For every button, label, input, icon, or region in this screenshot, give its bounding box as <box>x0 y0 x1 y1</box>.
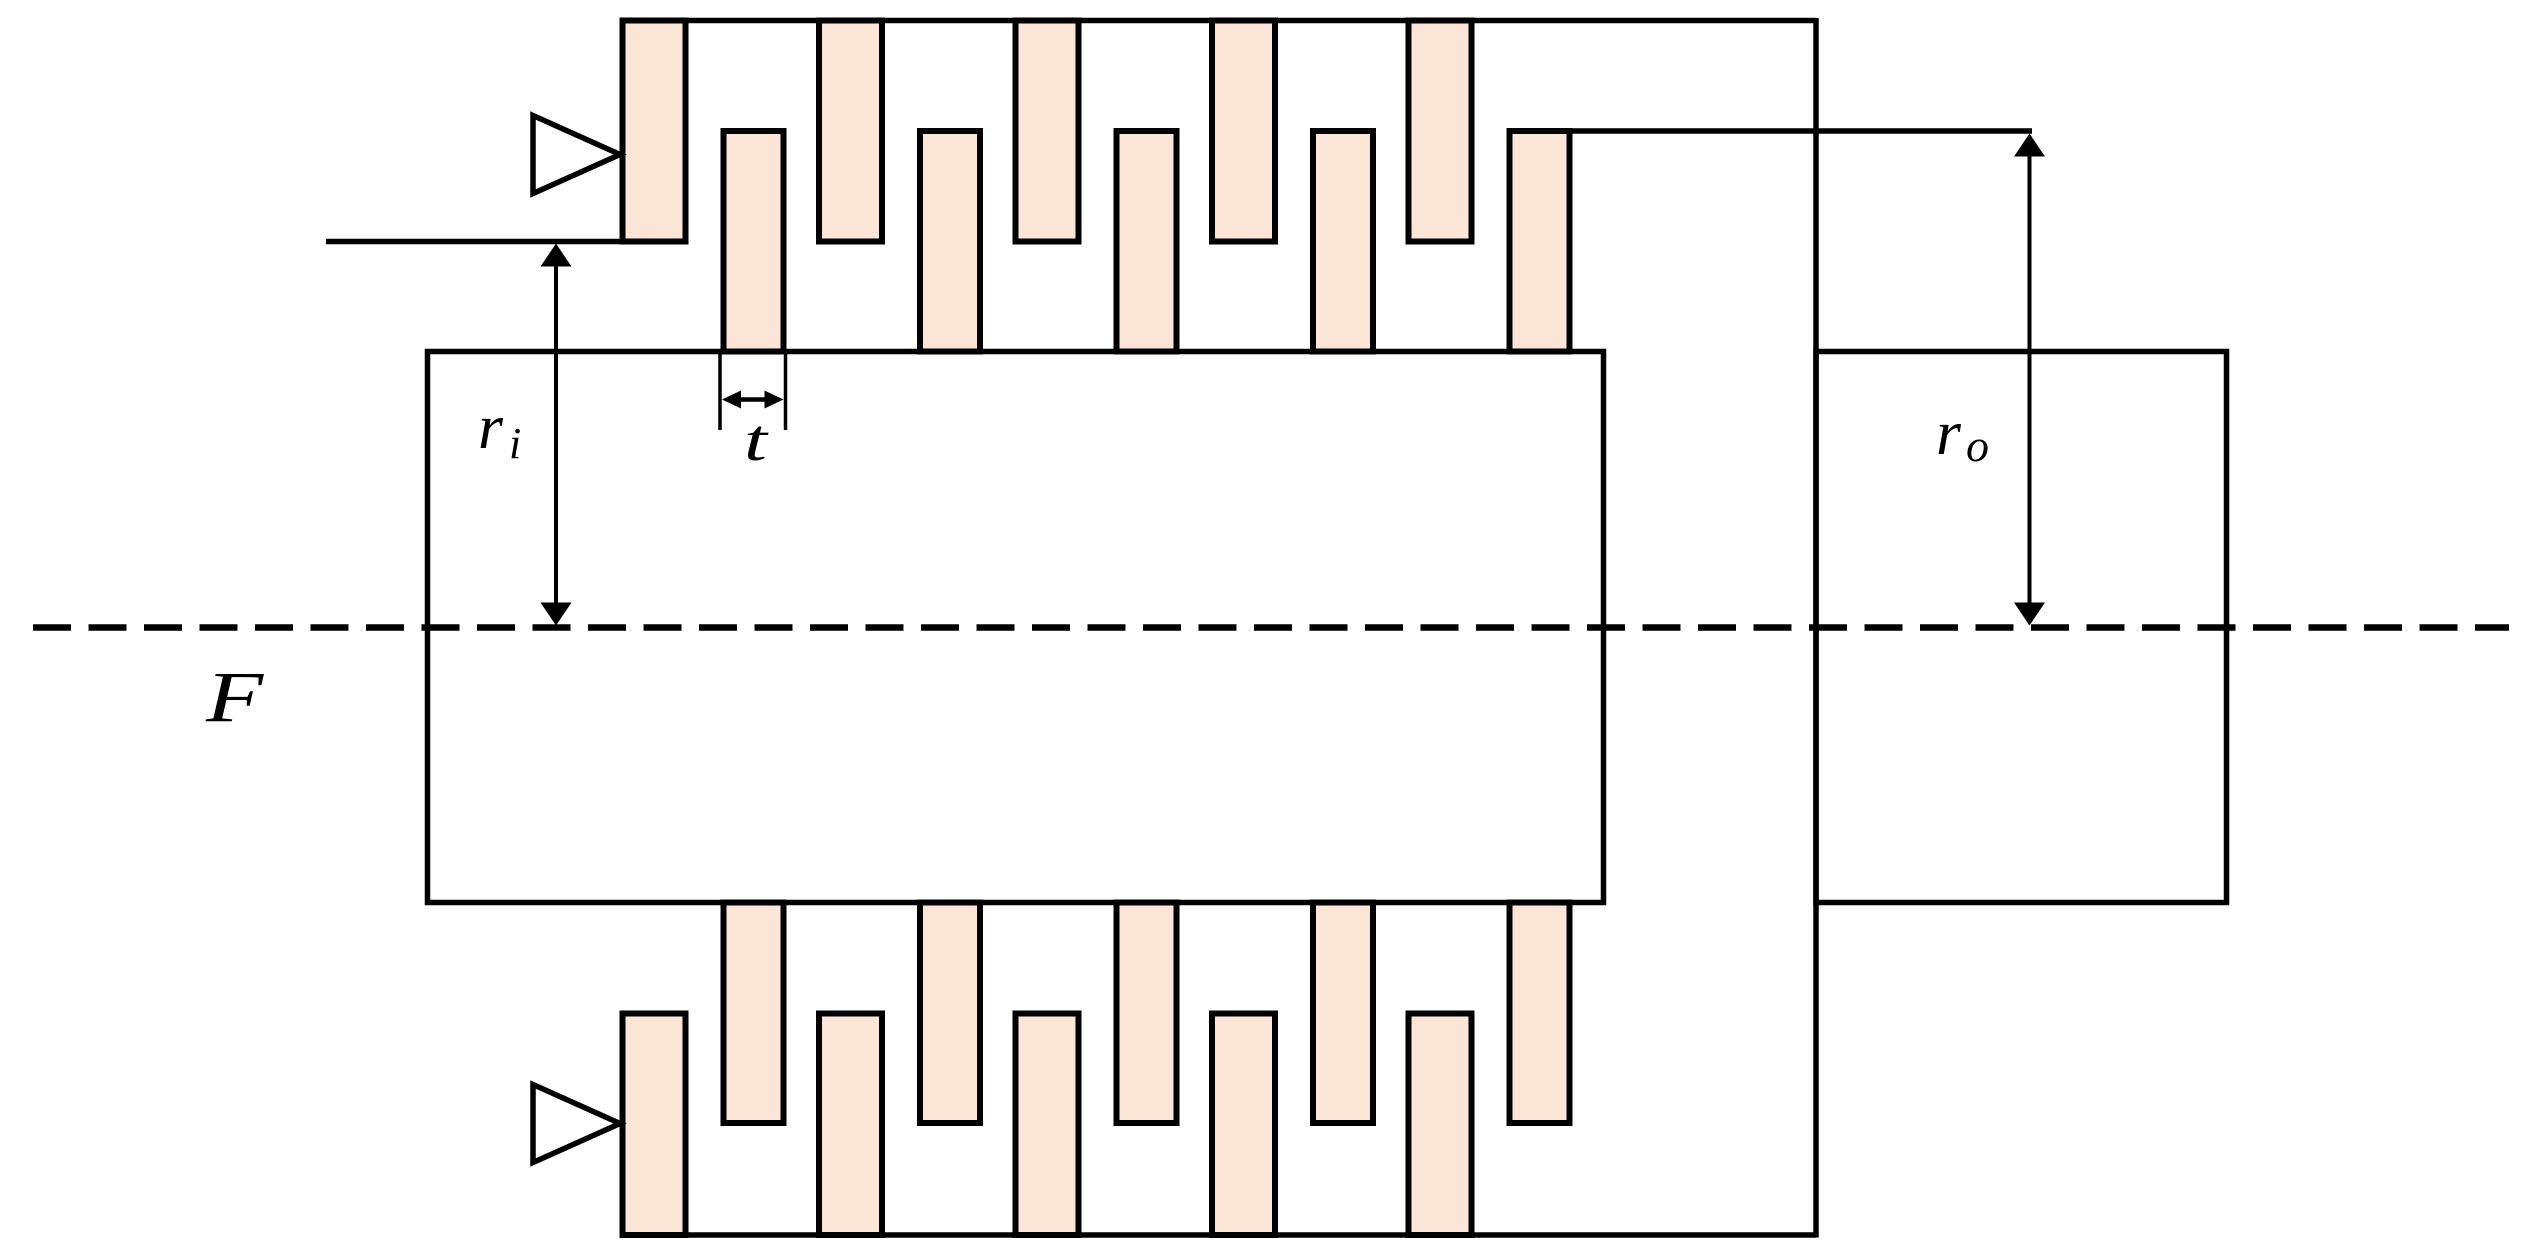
svg-text:i: i <box>509 419 521 468</box>
svg-text:o: o <box>1966 420 1989 471</box>
svg-text:t: t <box>744 407 769 473</box>
svg-text:r: r <box>478 391 504 462</box>
svg-text:r: r <box>1936 397 1962 468</box>
svg-text:F: F <box>205 658 264 737</box>
